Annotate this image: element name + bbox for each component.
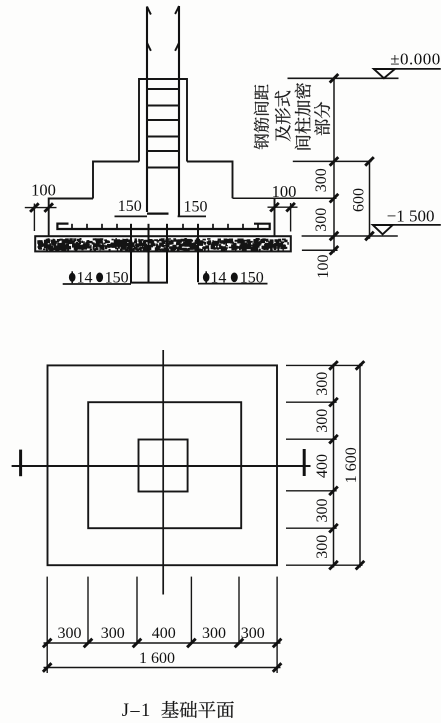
svg-text:300: 300	[314, 535, 331, 559]
plan middle square (step)	[88, 402, 241, 528]
column outline	[139, 79, 187, 162]
centerline end tick right	[303, 449, 306, 476]
plan right extension lines	[286, 365, 363, 565]
extension line at blinding bottom level	[302, 249, 338, 251]
note text: rebar spacing and form (vertical)	[254, 85, 291, 150]
dimension label 400 right chain	[314, 454, 331, 478]
svg-text:300: 300	[241, 625, 265, 642]
column rebar bar left with break arrows	[147, 7, 151, 213]
dimension 100 right (blinding projection)	[268, 182, 298, 232]
plan bottom dim line	[44, 642, 281, 644]
foundation footing top right + right edge (extends as extension line)	[233, 197, 337, 199]
column dowel bars into footing	[130, 224, 168, 283]
dimension label 100 (blinding)	[315, 255, 332, 279]
svg-text:300: 300	[101, 625, 125, 642]
dimension label 150 (left dowel spacing)	[115, 198, 148, 216]
dimension label 150 (right dowel spacing)	[178, 199, 208, 217]
plan right chain line	[333, 364, 335, 568]
column stirrup rungs	[146, 89, 180, 168]
svg-text:400: 400	[314, 454, 331, 478]
plan outer square (footing 1600x1600)	[48, 365, 278, 565]
dimension label 300 right chain	[314, 409, 331, 433]
level symbol -1 500	[373, 207, 441, 235]
extension line at footing bottom level / -1.500 level line	[302, 235, 398, 237]
rebar label phi14@150 right	[198, 270, 268, 287]
svg-text:J–1: J–1	[122, 701, 152, 721]
column rebar bar right with break arrows	[175, 6, 179, 216]
svg-text:1 600: 1 600	[343, 447, 360, 483]
dimension label 300 (lower)	[313, 208, 330, 232]
dimension label 1 600 right	[343, 447, 360, 483]
svg-text:±0.000: ±0.000	[390, 50, 441, 69]
svg-text:100: 100	[272, 182, 297, 201]
foundation footing top left + left edge	[49, 199, 93, 237]
svg-text:−1 500: −1 500	[387, 207, 435, 226]
svg-text:400: 400	[152, 625, 176, 642]
plan bottom extension lines	[47, 577, 277, 673]
footing bottom rebar with end hooks	[57, 224, 269, 229]
dimension label 300 right chain	[314, 499, 331, 523]
svg-text:300: 300	[314, 409, 331, 433]
svg-text:150: 150	[118, 198, 142, 215]
longitudinal bar section at right	[197, 224, 199, 282]
svg-text:300: 300	[314, 372, 331, 396]
foundation step 1 right	[187, 162, 233, 199]
plan bottom overall dim line	[44, 667, 281, 669]
svg-text:300: 300	[313, 168, 330, 192]
svg-text:100: 100	[315, 255, 332, 279]
plan inner square (column 400x400)	[139, 440, 188, 492]
caption J-1 foundation plan	[122, 701, 234, 721]
dimension 100 left (blinding projection)	[25, 181, 57, 232]
svg-text:100: 100	[31, 181, 56, 200]
elevation dimension chain main line	[333, 78, 335, 253]
centerline end tick left	[19, 450, 22, 477]
svg-text:300: 300	[313, 208, 330, 232]
dimension 600 line	[369, 161, 371, 239]
plan vertical centerline	[162, 350, 164, 595]
foundation step 1 left	[93, 162, 139, 199]
svg-text:300: 300	[58, 625, 82, 642]
note text: column densified zone (vertical)	[295, 83, 330, 149]
dimension label 300 (upper)	[313, 168, 330, 192]
svg-text:300: 300	[314, 499, 331, 523]
chain ticks	[330, 74, 339, 255]
svg-text:600: 600	[350, 188, 367, 212]
svg-text:1 600: 1 600	[139, 650, 175, 667]
extension line at step1 level	[293, 160, 372, 162]
lean concrete blinding layer (stippled)	[35, 236, 291, 252]
dimension label 600	[350, 188, 367, 212]
rebar label phi14@150 left	[63, 270, 131, 287]
svg-text:150: 150	[184, 199, 208, 216]
plan horizontal centerline	[12, 465, 311, 467]
dimension label 300 right chain	[314, 535, 331, 559]
level symbol +/-0.000	[288, 50, 441, 79]
column bar bottom bend	[147, 213, 169, 215]
svg-text:300: 300	[202, 625, 226, 642]
transverse bar ticks on footing rebar	[72, 224, 258, 229]
dimension label 300 right chain	[314, 372, 331, 396]
plan right overall 1600 line	[359, 364, 361, 568]
